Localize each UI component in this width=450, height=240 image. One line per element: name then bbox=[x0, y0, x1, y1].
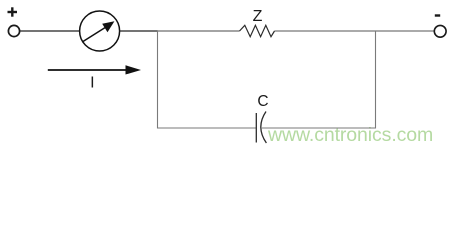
+ terminal polarity label bbox=[8, 7, 18, 16]
wire capacitor to bottom right bbox=[261, 127, 376, 129]
svg-text:www.cntronics.com: www.cntronics.com bbox=[267, 124, 433, 146]
wire right vertical branch bbox=[375, 31, 377, 129]
current arrow I bbox=[48, 65, 141, 74]
wire resistor to right terminal (through node B) bbox=[275, 30, 435, 32]
- terminal polarity label bbox=[435, 14, 440, 16]
wire left vertical branch bbox=[157, 31, 159, 129]
left terminal bbox=[8, 25, 19, 36]
wire bottom left to capacitor bbox=[158, 127, 257, 129]
svg-text:Z: Z bbox=[253, 8, 263, 25]
meter needle bbox=[83, 21, 114, 41]
capacitor C left plate bbox=[255, 113, 257, 143]
meter M1 body bbox=[80, 11, 120, 51]
resistor Z bbox=[240, 25, 275, 36]
capacitor C right curved plate bbox=[261, 112, 267, 144]
svg-text:I: I bbox=[90, 75, 94, 92]
right terminal bbox=[434, 25, 446, 37]
wire meter to node A bbox=[120, 30, 158, 32]
wire node A to resistor (top branch) bbox=[158, 30, 240, 32]
svg-text:C: C bbox=[257, 93, 268, 110]
wire terminal to meter bbox=[20, 30, 80, 32]
